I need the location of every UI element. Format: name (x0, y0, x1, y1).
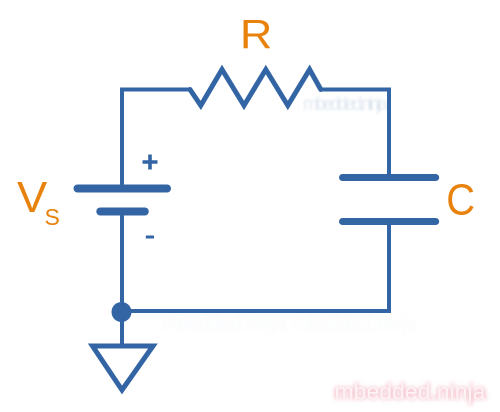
svg-text:V: V (17, 174, 47, 222)
svg-text:mbedded.ninja: mbedded.ninja (303, 94, 388, 115)
svg-text:S: S (45, 204, 60, 230)
svg-text:R: R (240, 12, 272, 57)
svg-text:mbedded.ninja mbedded.ninja: mbedded.ninja mbedded.ninja (162, 314, 417, 335)
svg-text:mbedded.ninja: mbedded.ninja (335, 379, 486, 405)
svg-text:C: C (446, 175, 475, 224)
